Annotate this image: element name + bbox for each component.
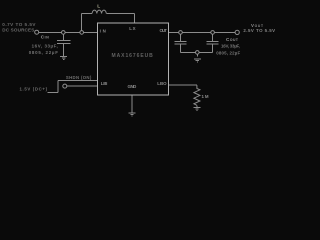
wire GND pin down: [131, 95, 133, 113]
junction circle Cout2: [211, 31, 215, 35]
terminal circle LBI: [63, 84, 67, 88]
wire inductor top right: [106, 13, 134, 15]
wire capacitor Cout2 lead lower: [212, 44, 214, 53]
output terminal circle VOUT: [235, 30, 239, 34]
svg-text:IN: IN: [100, 28, 106, 33]
wire SHDN: [58, 80, 98, 82]
wire output rail: [169, 32, 236, 34]
input terminal circle: [35, 30, 39, 34]
svg-text:GND: GND: [128, 84, 137, 89]
junction circle caps ground: [196, 51, 200, 55]
resistor R1 zigzag: [194, 85, 200, 105]
svg-text:0.7V TO 5.5V: 0.7V TO 5.5V: [2, 22, 36, 27]
capacitor Cout1 plates: [174, 41, 186, 44]
wire SHDN stub left: [48, 92, 59, 94]
svg-text:LX: LX: [129, 26, 135, 31]
ground GND pin: [128, 113, 135, 116]
svg-text:SHDN (ON): SHDN (ON): [66, 75, 92, 80]
svg-text:COUT: COUT: [226, 37, 239, 42]
wire capacitor Cout1 lead upper: [180, 34, 182, 41]
svg-text:1.5V (DC+): 1.5V (DC+): [20, 87, 48, 92]
capacitor Cin plates: [57, 41, 70, 44]
wire cap Cout1 to ground junction: [181, 52, 196, 54]
svg-text:LBO: LBO: [157, 81, 167, 86]
junction circle Cin: [62, 31, 66, 35]
svg-text:MAX1676EUB: MAX1676EUB: [112, 53, 154, 59]
inductor L humps: [92, 10, 106, 13]
capacitor Cout2 plates: [207, 41, 219, 44]
wire capacitor Cout1 lead lower: [180, 44, 182, 53]
ground output caps: [194, 59, 201, 62]
wire ground junction down: [197, 54, 199, 57]
svg-text:LBI: LBI: [101, 81, 108, 86]
svg-text:1M: 1M: [202, 94, 209, 99]
svg-text:16V, 33µF,: 16V, 33µF,: [32, 44, 58, 49]
svg-text:L: L: [97, 3, 100, 9]
wire input rail: [39, 32, 98, 34]
ground resistor R1: [193, 107, 200, 110]
wire LX vertical: [134, 14, 136, 24]
wire resistor bottom: [196, 105, 198, 107]
wire inductor top left: [82, 13, 93, 15]
wire capacitor Cout2 lead upper: [212, 34, 214, 41]
svg-text:CIN: CIN: [41, 35, 50, 40]
svg-text:2.5V TO 5.5V: 2.5V TO 5.5V: [243, 28, 275, 33]
wire capacitor Cin lead lower: [62, 44, 64, 57]
svg-text:0805, 22µF: 0805, 22µF: [29, 50, 59, 55]
svg-text:0805, 22µF: 0805, 22µF: [216, 50, 240, 55]
wire capacitor Cin lead upper: [62, 34, 64, 40]
svg-text:16V, 33µF,: 16V, 33µF,: [221, 44, 240, 49]
ground Cin: [60, 57, 67, 60]
svg-text:DC SOURCES: DC SOURCES: [2, 27, 34, 32]
junction circle inductor: [80, 31, 84, 35]
IC U1 MAX1676 box: [98, 23, 169, 95]
wire LBI: [67, 85, 98, 87]
svg-text:OUT: OUT: [160, 28, 168, 33]
wire cap Cout2 to ground junction: [199, 52, 213, 54]
wire LBO: [169, 84, 197, 86]
wire SHDN vertical: [57, 81, 59, 93]
wire inductor left vertical: [81, 14, 83, 33]
junction circle Cout1: [179, 31, 183, 35]
